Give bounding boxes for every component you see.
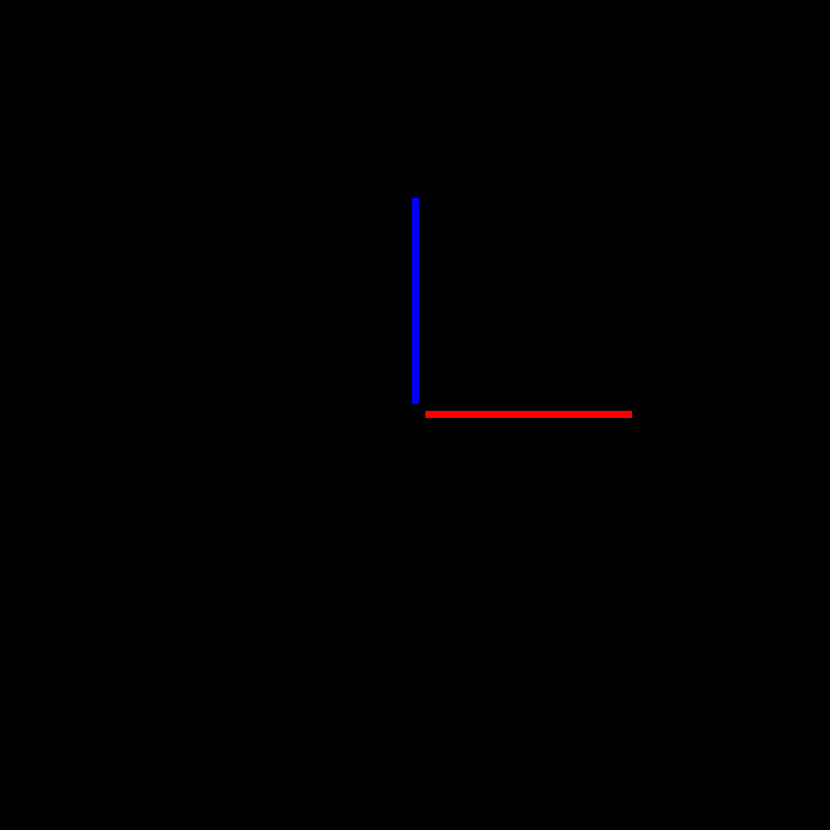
blue vertical vector segment xyxy=(412,198,419,404)
red horizontal vector segment xyxy=(425,411,632,418)
